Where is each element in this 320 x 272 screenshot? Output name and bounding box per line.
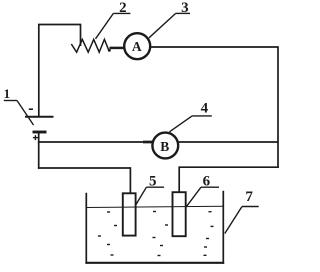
- label 4 pointer: [170, 116, 212, 132]
- svg-text:2: 2: [119, 0, 127, 16]
- wire: battery positive to voltmeter (left lead): [39, 141, 153, 143]
- wire: drop to electrode 5: [129, 167, 131, 194]
- wire: ammeter to top right corner: [150, 46, 278, 48]
- ammeter letter A: [132, 39, 142, 54]
- label 6 digit: [203, 173, 211, 189]
- voltmeter B (element 4): [152, 133, 178, 159]
- wire: bottom right horizontal to electrode 6: [179, 166, 279, 168]
- wire: bottom left horizontal to electrode 5: [38, 167, 130, 169]
- label 7 pointer: [225, 207, 259, 234]
- wire: vertical down to rheostat: [80, 24, 82, 46]
- rheostat R (element 2) zigzag: [71, 39, 111, 52]
- label 3 digit: [181, 0, 189, 16]
- voltmeter letter B: [160, 139, 169, 154]
- label 6 pointer: [187, 187, 219, 206]
- battery GB (element 1): [25, 109, 54, 142]
- wire: rheostat lead to ammeter (thick): [110, 47, 124, 50]
- electrode 5 cathode: [123, 193, 136, 235]
- label 7 digit: [245, 189, 253, 205]
- electrode 6 anode: [173, 192, 186, 236]
- wire: right vertical: [277, 46, 279, 168]
- wire: battery positive lead down: [38, 142, 40, 169]
- wire: top horizontal: [38, 24, 81, 26]
- label 5 digit: [149, 173, 157, 189]
- label 3 pointer: [149, 13, 190, 37]
- wire: drop to electrode 6: [178, 166, 180, 193]
- label 2 digit: [119, 0, 127, 16]
- svg-text:B: B: [160, 139, 169, 154]
- label 5 pointer: [136, 187, 164, 205]
- label 2 pointer: [96, 13, 131, 38]
- svg-text:3: 3: [181, 0, 189, 16]
- svg-text:4: 4: [201, 101, 209, 117]
- svg-text:5: 5: [149, 173, 157, 189]
- svg-text:7: 7: [245, 189, 253, 205]
- svg-text:A: A: [132, 39, 142, 54]
- label 1 pointer: [4, 101, 34, 126]
- label 4 digit: [201, 101, 209, 117]
- wire: battery negative terminal up left vertical: [38, 25, 40, 117]
- svg-text:1: 1: [4, 86, 11, 101]
- label 1 digit: [4, 86, 11, 101]
- electrolyte solution dashes: [98, 212, 214, 256]
- electrolyte bath vessel (element 7): [85, 191, 224, 264]
- liquid level line: [86, 206, 223, 207]
- ammeter A (element 3): [124, 33, 150, 59]
- svg-text:6: 6: [203, 173, 211, 189]
- wire: voltmeter right lead: [178, 141, 278, 143]
